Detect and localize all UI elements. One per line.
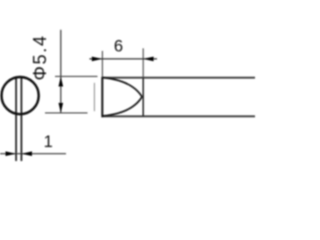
- taper boundary line (inside shaft): [142, 78, 144, 117]
- extension line bottom (circle bottom): [45, 112, 88, 114]
- dimension line for 1: [0, 153, 66, 155]
- tip flat end face line (faint): [93, 83, 95, 111]
- slot edge line left (extends below circle to dimension 1): [15, 78, 17, 161]
- arrowhead pointing up at top extension line: [59, 77, 64, 87]
- arrowhead pointing right at left slot line: [6, 151, 17, 156]
- grind curve upper branch: [102, 78, 142, 97]
- arrowhead pointing left at right extension of 6: [143, 57, 154, 62]
- svg-text:1: 1: [44, 133, 53, 151]
- arrowhead pointing right at left extension of 6: [92, 57, 103, 62]
- side view tip end left edge: [101, 77, 103, 117]
- arrowhead pointing down at bottom extension line: [59, 103, 64, 113]
- end-view circle (tip face, Φ5.4): [2, 77, 39, 114]
- extension line for 6 above shaft (left): [101, 51, 103, 77]
- side view shaft bottom edge: [102, 115, 256, 117]
- svg-text:Φ5.4: Φ5.4: [30, 34, 50, 80]
- svg-text:6: 6: [114, 38, 123, 56]
- dimension line for Φ5.4 (vertical): [60, 30, 62, 113]
- slot edge line right (extends below circle to dimension 1): [20, 77, 22, 161]
- dimension line for 6: [89, 58, 157, 60]
- side view shaft top edge: [102, 77, 256, 79]
- grind curve lower branch: [102, 97, 142, 116]
- arrowhead pointing left at right slot line: [21, 151, 32, 156]
- extension line top (circle top): [55, 75, 98, 77]
- extension line for 6 above shaft (right): [142, 48, 144, 77]
